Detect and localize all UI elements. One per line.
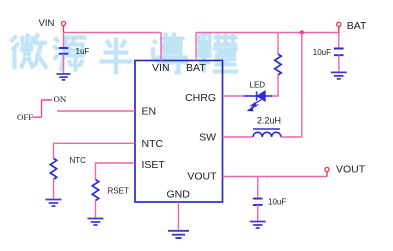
port VOUT bbox=[326, 172, 328, 177]
ground G4 bbox=[168, 231, 189, 238]
wire RSET to ground bbox=[95, 201, 97, 218]
wire CHRG bbox=[223, 95, 244, 97]
wire R1 branch bbox=[277, 33, 279, 55]
char 導 bbox=[152, 33, 190, 73]
wire NTC resistor to ground bbox=[53, 179, 55, 198]
inductor L1 2.2uH bbox=[253, 129, 281, 137]
resistor R1 bbox=[275, 54, 281, 75]
wire BAT pin rise bbox=[195, 33, 197, 61]
wire C2 to ground bbox=[338, 55, 340, 71]
wire ISET bbox=[96, 163, 136, 180]
wire inductor to BAT rail bbox=[281, 33, 302, 138]
svg-text:1uF: 1uF bbox=[76, 47, 90, 56]
resistor RSET bbox=[92, 180, 98, 201]
svg-text:VOUT: VOUT bbox=[336, 163, 366, 175]
ground G1 bbox=[57, 74, 71, 80]
svg-text:GND: GND bbox=[167, 189, 191, 201]
ground G6 bbox=[331, 72, 347, 79]
svg-text:10uF: 10uF bbox=[313, 48, 331, 57]
wire VOUT rail bbox=[223, 176, 328, 178]
wire C1 branch bbox=[63, 33, 65, 48]
ground G2 bbox=[46, 200, 62, 207]
char 微 bbox=[11, 34, 48, 70]
wire SW to inductor bbox=[223, 136, 254, 138]
svg-text:ON: ON bbox=[54, 94, 67, 104]
resistor NTC bbox=[50, 158, 56, 179]
watermark 微源半導體 bbox=[11, 33, 239, 75]
svg-text:SW: SW bbox=[199, 131, 216, 143]
wire GND pin bbox=[178, 202, 180, 230]
char 源 bbox=[54, 38, 87, 73]
svg-text:EN: EN bbox=[142, 106, 157, 118]
svg-text:VIN: VIN bbox=[152, 62, 170, 74]
svg-text:10uF: 10uF bbox=[268, 197, 286, 206]
svg-text:BAT: BAT bbox=[186, 62, 206, 74]
port BAT bbox=[338, 27, 340, 33]
LED D1 bbox=[244, 91, 273, 100]
svg-text:BAT: BAT bbox=[347, 20, 367, 32]
ground G3 bbox=[88, 219, 104, 226]
junction dot bbox=[300, 30, 304, 34]
ground G5 bbox=[250, 222, 266, 229]
svg-text:VIN: VIN bbox=[39, 18, 55, 29]
svg-text:CHRG: CHRG bbox=[185, 92, 216, 104]
wire VIN rail bbox=[64, 32, 162, 34]
wire C1 to ground bbox=[63, 54, 65, 73]
capacitor C3 10uF bbox=[253, 199, 263, 205]
svg-text:VOUT: VOUT bbox=[187, 171, 217, 183]
svg-text:2.2uH: 2.2uH bbox=[257, 116, 281, 126]
char 體 bbox=[197, 33, 238, 73]
LED arrows bbox=[248, 100, 261, 111]
char 半 bbox=[100, 38, 133, 75]
svg-text:ISET: ISET bbox=[142, 159, 166, 171]
wire EN bbox=[57, 110, 135, 112]
wire VIN pin drop bbox=[160, 33, 162, 61]
IC U1 box bbox=[135, 61, 223, 203]
svg-text:OFF: OFF bbox=[17, 112, 33, 122]
wire C3 to ground bbox=[257, 205, 259, 221]
wire NTC bbox=[54, 143, 136, 158]
svg-text:RSET: RSET bbox=[108, 187, 129, 196]
wire BAT rail bbox=[196, 32, 339, 34]
svg-text:NTC: NTC bbox=[142, 138, 164, 150]
capacitor C2 10uF bbox=[334, 49, 344, 56]
capacitor C1 1uF bbox=[59, 48, 68, 54]
svg-text:LED: LED bbox=[250, 81, 266, 90]
wire R1 to LED bbox=[272, 75, 278, 96]
wire C3 branch bbox=[257, 177, 259, 198]
wire C2 branch bbox=[338, 33, 340, 48]
svg-text:NTC: NTC bbox=[70, 156, 87, 165]
